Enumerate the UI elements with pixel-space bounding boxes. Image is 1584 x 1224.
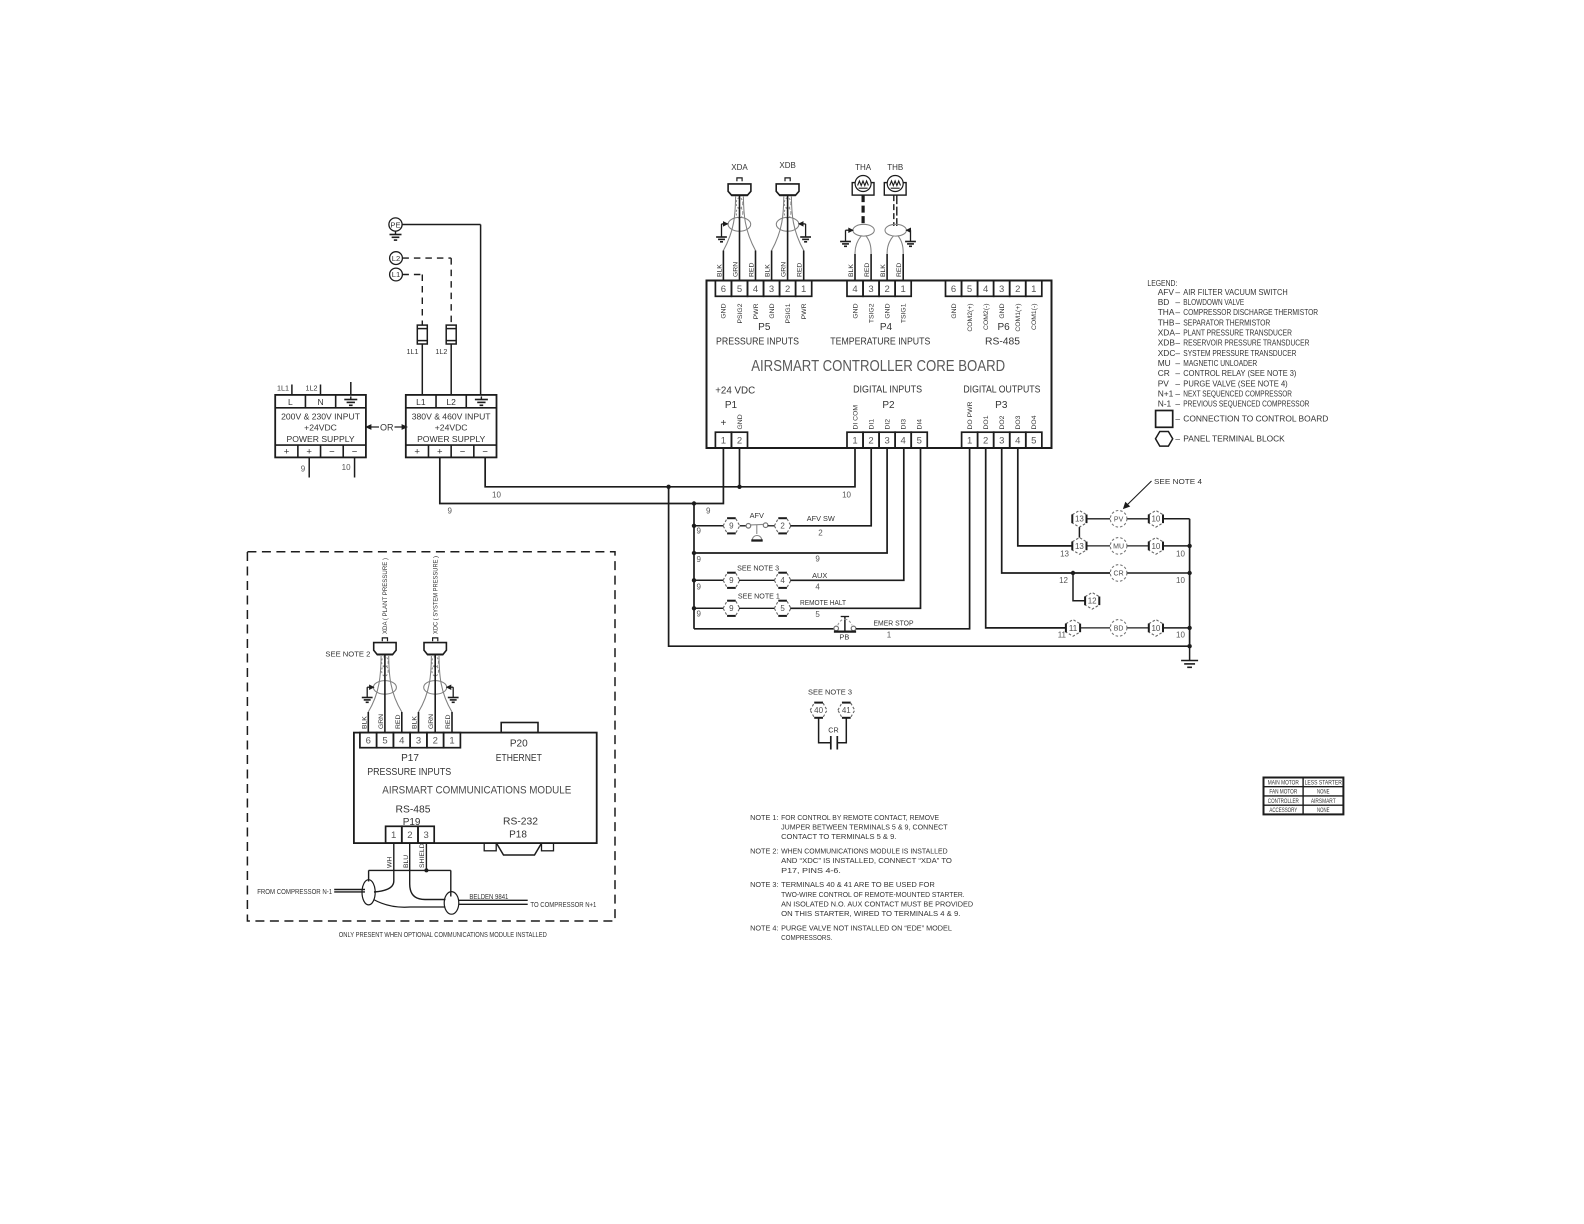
- svg-text:CONTROL RELAY (SEE NOTE 3): CONTROL RELAY (SEE NOTE 3): [1183, 368, 1296, 378]
- svg-text:–: –: [1175, 378, 1180, 388]
- svg-text:P5: P5: [758, 322, 771, 333]
- svg-text:THA: THA: [855, 163, 872, 172]
- svg-text:RED: RED: [445, 715, 452, 729]
- svg-text:PURGE VALVE NOT INSTALLED ON “: PURGE VALVE NOT INSTALLED ON “EDE” MODEL: [781, 923, 952, 932]
- svg-text:6: 6: [951, 284, 956, 295]
- svg-text:RS-485: RS-485: [396, 805, 431, 816]
- svg-text:BD: BD: [1114, 625, 1124, 632]
- svg-text:BLK: BLK: [765, 264, 772, 277]
- svg-text:5: 5: [1031, 436, 1036, 447]
- svg-text:TSIG2: TSIG2: [868, 303, 875, 323]
- svg-text:P1: P1: [725, 400, 738, 411]
- svg-text:MAGNETIC UNLOADER: MAGNETIC UNLOADER: [1183, 358, 1257, 368]
- svg-text:1: 1: [449, 736, 454, 747]
- svg-text:AFV: AFV: [1158, 287, 1175, 297]
- svg-text:+: +: [414, 447, 420, 458]
- svg-text:XDB: XDB: [779, 161, 795, 170]
- svg-text:4: 4: [815, 582, 820, 591]
- svg-text:−: −: [460, 447, 466, 458]
- svg-text:DI2: DI2: [884, 419, 891, 430]
- svg-text:GND: GND: [999, 303, 1006, 318]
- svg-text:FAN MOTOR: FAN MOTOR: [1269, 790, 1297, 796]
- svg-text:RED: RED: [749, 263, 756, 277]
- svg-text:11: 11: [1058, 631, 1067, 640]
- svg-text:CR: CR: [1114, 571, 1124, 578]
- svg-text:+24VDC: +24VDC: [435, 423, 468, 433]
- svg-text:NONE: NONE: [1317, 808, 1329, 814]
- svg-text:1: 1: [887, 630, 892, 639]
- svg-text:–: –: [1175, 297, 1180, 307]
- svg-text:COM1(-): COM1(-): [1031, 304, 1038, 330]
- svg-text:10: 10: [1151, 624, 1160, 633]
- svg-text:6: 6: [366, 736, 371, 747]
- svg-text:11: 11: [1069, 624, 1078, 633]
- svg-text:AUX: AUX: [812, 571, 827, 580]
- svg-text:1L2: 1L2: [435, 347, 447, 356]
- svg-text:AFV: AFV: [750, 511, 764, 520]
- svg-text:3: 3: [999, 284, 1004, 295]
- svg-text:200V & 230V INPUT: 200V & 230V INPUT: [281, 412, 361, 422]
- svg-text:5: 5: [382, 736, 387, 747]
- svg-text:12: 12: [1059, 576, 1068, 585]
- svg-text:–: –: [1175, 307, 1180, 317]
- svg-text:RS-232: RS-232: [503, 817, 538, 828]
- svg-text:4: 4: [399, 736, 404, 747]
- svg-text:MU: MU: [1158, 358, 1171, 368]
- svg-text:6: 6: [721, 284, 726, 295]
- svg-text:2: 2: [780, 522, 785, 531]
- svg-text:2: 2: [884, 284, 889, 295]
- svg-text:1: 1: [801, 284, 806, 295]
- svg-text:1: 1: [391, 830, 396, 841]
- svg-text:−: −: [329, 447, 335, 458]
- svg-text:1L1: 1L1: [407, 347, 419, 356]
- svg-text:TERMINALS 40 & 41 ARE TO BE US: TERMINALS 40 & 41 ARE TO BE USED FOR: [781, 880, 935, 889]
- svg-text:3: 3: [423, 830, 428, 841]
- svg-text:TEMPERATURE INPUTS: TEMPERATURE INPUTS: [830, 337, 930, 348]
- svg-text:PREVIOUS SEQUENCED COMPRESSOR: PREVIOUS SEQUENCED COMPRESSOR: [1183, 399, 1309, 409]
- svg-text:3: 3: [868, 284, 873, 295]
- svg-text:RED: RED: [896, 263, 903, 277]
- svg-text:GND: GND: [721, 303, 728, 318]
- svg-text:−: −: [352, 447, 358, 458]
- svg-text:BLOWDOWN VALVE: BLOWDOWN VALVE: [1183, 297, 1244, 307]
- svg-text:P18: P18: [509, 830, 527, 841]
- svg-text:N+1: N+1: [1158, 388, 1174, 398]
- svg-text:SEE NOTE 4: SEE NOTE 4: [1154, 477, 1202, 486]
- svg-text:DI COM: DI COM: [852, 405, 859, 430]
- svg-text:SYSTEM PRESSURE TRANSDUCER: SYSTEM PRESSURE TRANSDUCER: [1183, 348, 1296, 358]
- svg-text:GND: GND: [852, 303, 859, 318]
- svg-text:N-1: N-1: [1158, 399, 1172, 409]
- svg-text:–: –: [1175, 399, 1180, 409]
- svg-text:–: –: [1175, 317, 1180, 327]
- svg-text:4: 4: [753, 284, 758, 295]
- svg-text:COM2(-): COM2(-): [983, 304, 990, 330]
- svg-text:L2: L2: [392, 254, 400, 263]
- svg-text:PANEL TERMINAL BLOCK: PANEL TERMINAL BLOCK: [1183, 433, 1285, 443]
- svg-text:P4: P4: [880, 322, 893, 333]
- svg-text:DO3: DO3: [1015, 415, 1022, 429]
- svg-text:L1: L1: [416, 397, 426, 407]
- svg-text:9: 9: [697, 527, 702, 536]
- svg-text:POWER SUPPLY: POWER SUPPLY: [417, 434, 485, 444]
- svg-text:AIRSMART: AIRSMART: [1311, 799, 1336, 805]
- svg-text:GND: GND: [769, 303, 776, 318]
- svg-text:DO PWR: DO PWR: [967, 401, 974, 429]
- svg-text:GND: GND: [884, 303, 891, 318]
- svg-text:2: 2: [818, 529, 823, 538]
- svg-text:1: 1: [967, 436, 972, 447]
- svg-text:XDA ( PLANT PRESSURE ): XDA ( PLANT PRESSURE ): [382, 558, 389, 634]
- svg-text:TO COMPRESSOR N+1: TO COMPRESSOR N+1: [530, 900, 596, 909]
- svg-text:DO2: DO2: [999, 415, 1006, 429]
- svg-text:AIRSMART COMMUNICATIONS MODULE: AIRSMART COMMUNICATIONS MODULE: [382, 785, 571, 797]
- svg-text:P2: P2: [882, 400, 895, 411]
- svg-text:12: 12: [1088, 597, 1097, 606]
- svg-text:GND: GND: [951, 303, 958, 318]
- svg-text:SEE NOTE 3: SEE NOTE 3: [737, 563, 779, 572]
- svg-text:4: 4: [1015, 436, 1020, 447]
- svg-text:PURGE VALVE (SEE NOTE 4): PURGE VALVE (SEE NOTE 4): [1183, 378, 1288, 388]
- svg-text:4: 4: [901, 436, 906, 447]
- svg-text:–: –: [1175, 433, 1180, 443]
- svg-text:5: 5: [917, 436, 922, 447]
- svg-text:XDA: XDA: [731, 163, 748, 172]
- svg-text:TWO-WIRE CONTROL OF REMOTE-MOU: TWO-WIRE CONTROL OF REMOTE-MOUNTED START…: [781, 890, 965, 899]
- svg-text:BLU: BLU: [403, 855, 410, 868]
- svg-text:NOTE 2:: NOTE 2:: [750, 847, 778, 856]
- svg-text:–: –: [1175, 388, 1180, 398]
- svg-text:9: 9: [448, 507, 453, 516]
- svg-text:DI4: DI4: [917, 419, 924, 430]
- svg-text:L: L: [288, 397, 293, 407]
- svg-text:ONLY PRESENT WHEN OPTIONAL COM: ONLY PRESENT WHEN OPTIONAL COMMUNICATION…: [339, 930, 547, 939]
- svg-text:PRESSURE INPUTS: PRESSURE INPUTS: [716, 337, 799, 348]
- svg-text:GRN: GRN: [428, 714, 435, 729]
- svg-text:2: 2: [737, 436, 742, 447]
- svg-text:BLK: BLK: [412, 716, 419, 729]
- svg-text:9: 9: [697, 610, 702, 619]
- svg-text:PSIG1: PSIG1: [785, 303, 792, 323]
- svg-text:–: –: [1175, 348, 1180, 358]
- svg-text:REMOTE HALT: REMOTE HALT: [800, 598, 846, 607]
- svg-text:TSIG1: TSIG1: [900, 303, 907, 323]
- svg-text:THB: THB: [887, 163, 903, 172]
- svg-text:DIGITAL INPUTS: DIGITAL INPUTS: [853, 385, 922, 396]
- svg-text:5: 5: [780, 604, 785, 613]
- svg-text:1: 1: [1031, 284, 1036, 295]
- svg-text:FOR CONTROL BY REMOTE CONTACT,: FOR CONTROL BY REMOTE CONTACT, REMOVE: [781, 813, 939, 822]
- svg-text:RED: RED: [797, 263, 804, 277]
- svg-text:BLK: BLK: [848, 264, 855, 277]
- svg-text:P17: P17: [401, 753, 419, 764]
- svg-text:40: 40: [814, 706, 823, 715]
- svg-text:RED: RED: [395, 715, 402, 729]
- svg-text:AND “XDC” IS INSTALLED, CONNEC: AND “XDC” IS INSTALLED, CONNECT “XDA” TO: [781, 856, 952, 865]
- svg-text:GRN: GRN: [733, 262, 740, 277]
- svg-text:PE: PE: [390, 220, 400, 229]
- svg-text:AN ISOLATED N.O. AUX CONTACT M: AN ISOLATED N.O. AUX CONTACT MUST BE PRO…: [781, 899, 973, 908]
- svg-text:BLK: BLK: [361, 716, 368, 729]
- svg-text:41: 41: [842, 706, 851, 715]
- svg-text:GRN: GRN: [378, 714, 385, 729]
- svg-text:4: 4: [852, 284, 857, 295]
- svg-text:9: 9: [729, 522, 734, 531]
- svg-text:10: 10: [492, 491, 501, 500]
- svg-text:POWER SUPPLY: POWER SUPPLY: [286, 434, 354, 444]
- svg-text:380V & 460V INPUT: 380V & 460V INPUT: [412, 412, 492, 422]
- svg-text:JUMPER BETWEEN TERMINALS 5 & 9: JUMPER BETWEEN TERMINALS 5 & 9, CONNECT: [781, 823, 948, 832]
- svg-text:ACCESSORY: ACCESSORY: [1269, 808, 1297, 814]
- svg-text:9: 9: [729, 604, 734, 613]
- svg-text:3: 3: [416, 736, 421, 747]
- svg-text:PWR: PWR: [801, 303, 808, 319]
- svg-text:RESERVOIR PRESSURE TRANSDUCER: RESERVOIR PRESSURE TRANSDUCER: [1183, 338, 1309, 348]
- svg-text:5: 5: [967, 284, 972, 295]
- svg-text:10: 10: [1151, 515, 1160, 524]
- svg-text:SHIELD: SHIELD: [419, 843, 426, 868]
- svg-text:+24 VDC: +24 VDC: [715, 385, 755, 397]
- svg-text:4: 4: [780, 576, 785, 585]
- svg-text:9: 9: [729, 576, 734, 585]
- svg-text:NOTE 4:: NOTE 4:: [750, 923, 778, 932]
- svg-text:MAIN MOTOR: MAIN MOTOR: [1268, 780, 1300, 786]
- svg-text:XDC: XDC: [1158, 348, 1176, 358]
- svg-text:WHEN COMMUNICATIONS MODULE IS: WHEN COMMUNICATIONS MODULE IS INSTALLED: [781, 847, 948, 856]
- svg-text:NOTE 1:: NOTE 1:: [750, 813, 778, 822]
- svg-text:PLANT PRESSURE TRANSDUCER: PLANT PRESSURE TRANSDUCER: [1183, 328, 1292, 338]
- svg-text:GND: GND: [737, 414, 744, 429]
- svg-text:–: –: [1175, 358, 1180, 368]
- svg-text:+: +: [284, 447, 290, 458]
- svg-text:XDA: XDA: [1158, 328, 1176, 338]
- svg-text:MU: MU: [1113, 543, 1124, 550]
- svg-text:1: 1: [852, 436, 857, 447]
- svg-text:SEE NOTE 3: SEE NOTE 3: [808, 688, 852, 697]
- svg-text:CONNECTION TO CONTROL BOARD: CONNECTION TO CONTROL BOARD: [1183, 413, 1328, 423]
- svg-text:THB: THB: [1158, 317, 1175, 327]
- svg-text:2: 2: [433, 736, 438, 747]
- svg-text:13: 13: [1075, 542, 1084, 551]
- svg-text:2: 2: [868, 436, 873, 447]
- svg-text:PV: PV: [1114, 516, 1124, 523]
- svg-text:AIRSMART CONTROLLER CORE BOARD: AIRSMART CONTROLLER CORE BOARD: [751, 358, 1005, 375]
- svg-text:EMER STOP: EMER STOP: [874, 618, 914, 627]
- svg-text:−: −: [482, 447, 488, 458]
- svg-text:–: –: [1175, 287, 1180, 297]
- svg-text:N: N: [317, 397, 323, 407]
- svg-text:GRN: GRN: [781, 262, 788, 277]
- svg-text:+: +: [306, 447, 312, 458]
- svg-text:9: 9: [697, 583, 702, 592]
- svg-text:L2: L2: [446, 397, 456, 407]
- svg-text:COM1(+): COM1(+): [1015, 304, 1022, 332]
- svg-text:2: 2: [983, 436, 988, 447]
- svg-text:+: +: [437, 447, 443, 458]
- svg-text:DO1: DO1: [983, 415, 990, 429]
- svg-text:P3: P3: [995, 400, 1008, 411]
- svg-text:9: 9: [697, 555, 702, 564]
- svg-text:3: 3: [999, 436, 1004, 447]
- svg-text:CONTROLLER: CONTROLLER: [1268, 799, 1299, 805]
- svg-text:SEE NOTE 1: SEE NOTE 1: [738, 591, 780, 600]
- svg-text:–: –: [1175, 413, 1180, 423]
- svg-text:1L1: 1L1: [277, 384, 289, 393]
- svg-text:10: 10: [1176, 631, 1185, 640]
- svg-text:XDB: XDB: [1158, 338, 1176, 348]
- svg-text:9: 9: [815, 555, 820, 564]
- svg-text:AIR FILTER VACUUM SWITCH: AIR FILTER VACUUM SWITCH: [1183, 287, 1287, 297]
- svg-text:SEPARATOR THERMISTOR: SEPARATOR THERMISTOR: [1183, 317, 1270, 327]
- svg-text:ON THIS STARTER, WIRED TO TERM: ON THIS STARTER, WIRED TO TERMINALS 4 & …: [781, 909, 960, 918]
- svg-text:2: 2: [1015, 284, 1020, 295]
- svg-text:RED: RED: [864, 263, 871, 277]
- svg-text:5: 5: [737, 284, 742, 295]
- svg-text:10: 10: [342, 463, 351, 472]
- svg-text:P17, PINS 4-6.: P17, PINS 4-6.: [781, 866, 841, 875]
- svg-text:CONTACT TO TERMINALS 5 & 9.: CONTACT TO TERMINALS 5 & 9.: [781, 832, 896, 841]
- svg-text:BELDEN 9841: BELDEN 9841: [469, 892, 508, 901]
- svg-text:COMPRESSOR DISCHARGE THERMISTO: COMPRESSOR DISCHARGE THERMISTOR: [1183, 307, 1318, 317]
- svg-text:2: 2: [785, 284, 790, 295]
- svg-text:1: 1: [901, 284, 906, 295]
- svg-text:DIGITAL OUTPUTS: DIGITAL OUTPUTS: [963, 385, 1040, 396]
- svg-text:+: +: [720, 418, 726, 429]
- svg-text:1: 1: [721, 436, 726, 447]
- svg-text:+24VDC: +24VDC: [304, 423, 337, 433]
- svg-text:RS-485: RS-485: [985, 337, 1020, 348]
- svg-text:CR: CR: [828, 726, 838, 735]
- svg-text:NOTE 3:: NOTE 3:: [750, 880, 778, 889]
- svg-text:AFV SW: AFV SW: [807, 514, 835, 523]
- svg-text:P20: P20: [510, 739, 528, 750]
- svg-text:XDC ( SYSTEM PRESSURE ): XDC ( SYSTEM PRESSURE ): [433, 556, 440, 634]
- svg-text:2: 2: [407, 830, 412, 841]
- svg-text:SEE NOTE 2: SEE NOTE 2: [325, 650, 370, 659]
- svg-text:3: 3: [884, 436, 889, 447]
- svg-text:10: 10: [1151, 542, 1160, 551]
- svg-text:–: –: [1175, 328, 1180, 338]
- svg-text:PWR: PWR: [753, 303, 760, 319]
- svg-text:WH: WH: [387, 857, 394, 868]
- svg-text:COM2(+): COM2(+): [967, 304, 974, 332]
- svg-text:4: 4: [983, 284, 988, 295]
- svg-text:10: 10: [1176, 576, 1185, 585]
- svg-text:LESS STARTER: LESS STARTER: [1305, 780, 1343, 786]
- svg-text:BLK: BLK: [716, 264, 723, 277]
- svg-text:NONE: NONE: [1317, 790, 1329, 796]
- svg-text:5: 5: [815, 610, 820, 619]
- svg-text:–: –: [1175, 368, 1180, 378]
- svg-text:PRESSURE INPUTS: PRESSURE INPUTS: [367, 767, 451, 778]
- svg-text:1L2: 1L2: [306, 384, 318, 393]
- svg-text:BLK: BLK: [880, 264, 887, 277]
- svg-text:P6: P6: [997, 322, 1010, 333]
- svg-text:–: –: [1175, 338, 1180, 348]
- svg-text:9: 9: [301, 465, 306, 474]
- svg-text:OR: OR: [380, 422, 394, 432]
- svg-text:ETHERNET: ETHERNET: [496, 753, 542, 764]
- svg-text:PV: PV: [1158, 378, 1170, 388]
- svg-text:NEXT SEQUENCED COMPRESSOR: NEXT SEQUENCED COMPRESSOR: [1183, 388, 1292, 398]
- svg-text:13: 13: [1075, 515, 1084, 524]
- svg-text:10: 10: [1176, 550, 1185, 559]
- svg-text:BD: BD: [1158, 297, 1170, 307]
- svg-text:CR: CR: [1158, 368, 1170, 378]
- svg-text:COMPRESSORS.: COMPRESSORS.: [781, 933, 832, 942]
- svg-text:DO4: DO4: [1031, 415, 1038, 429]
- svg-text:PSIG2: PSIG2: [737, 303, 744, 323]
- svg-text:DI3: DI3: [900, 419, 907, 430]
- svg-text:THA: THA: [1158, 307, 1175, 317]
- svg-text:9: 9: [706, 507, 711, 516]
- svg-text:10: 10: [842, 491, 851, 500]
- svg-text:PB: PB: [839, 633, 849, 642]
- svg-text:L1: L1: [392, 270, 400, 279]
- svg-text:3: 3: [769, 284, 774, 295]
- svg-text:DI1: DI1: [868, 419, 875, 430]
- svg-text:FROM COMPRESSOR N-1: FROM COMPRESSOR N-1: [257, 887, 332, 896]
- svg-text:13: 13: [1060, 550, 1069, 559]
